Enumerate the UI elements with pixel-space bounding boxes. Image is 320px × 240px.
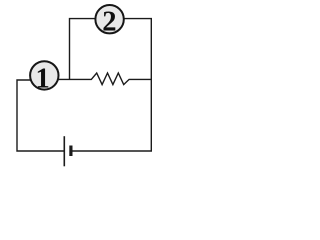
svg-text:2: 2 [102, 6, 116, 37]
svg-text:1: 1 [35, 63, 49, 94]
